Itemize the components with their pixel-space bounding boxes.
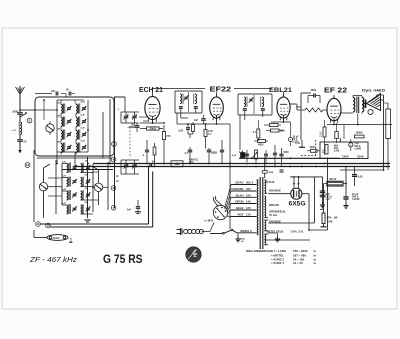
svg-text:220: 220 bbox=[246, 187, 251, 191]
svg-text:0,15: 0,15 bbox=[213, 153, 218, 155]
secondary winding heater bbox=[264, 220, 268, 231]
RF box inner wires bbox=[35, 99, 89, 152]
svg-text:2140: 2140 bbox=[357, 155, 364, 159]
svg-text:EBL21: EBL21 bbox=[269, 87, 292, 94]
svg-text:WEISS C: WEISS C bbox=[240, 229, 252, 233]
label spa block bbox=[327, 217, 338, 224]
secondary labels bbox=[267, 189, 304, 234]
osc switch wafer S3 bbox=[94, 170, 102, 205]
svg-text:m: m bbox=[314, 261, 317, 265]
resistor 4000c bbox=[307, 146, 320, 152]
svg-text:SPA - 1W: SPA - 1W bbox=[327, 217, 338, 220]
wire box1 to gang bbox=[103, 97, 125, 208]
svg-text:GELB: GELB bbox=[236, 206, 244, 210]
svg-text:140: 140 bbox=[246, 200, 251, 204]
svg-text:4 μF: 4 μF bbox=[354, 142, 359, 145]
label ZF 467 bbox=[29, 255, 78, 264]
transformer feed drop bbox=[264, 158, 266, 171]
secondary winding mid bbox=[264, 196, 268, 218]
svg-text:14K: 14K bbox=[328, 221, 333, 224]
svg-text:4000: 4000 bbox=[311, 89, 317, 92]
band switch wafer S1 bbox=[46, 121, 54, 135]
mech link dashes bbox=[301, 140, 316, 156]
RF band coil group 3 bbox=[56, 127, 86, 142]
weiss c tap bbox=[237, 229, 257, 233]
svg-text:0,25: 0,25 bbox=[208, 130, 213, 133]
svg-text:2kΩ: 2kΩ bbox=[189, 162, 194, 164]
label 1 pilot bbox=[69, 238, 73, 244]
svg-text:n. 4845: n. 4845 bbox=[205, 219, 214, 222]
resistor 1500b bbox=[266, 129, 285, 133]
primary winding bbox=[257, 180, 259, 235]
wire out trafo top bbox=[320, 95, 334, 97]
svg-text:1nF: 1nF bbox=[194, 119, 199, 122]
resistor 300 bbox=[324, 178, 347, 186]
electrolytic 4uF bbox=[349, 139, 362, 151]
resistor inside box bbox=[323, 145, 328, 155]
svg-text:n.2042: n.2042 bbox=[352, 198, 360, 201]
voltage selector bbox=[213, 205, 227, 219]
power transformer core bbox=[260, 177, 263, 249]
svg-text:3-: 3- bbox=[118, 109, 120, 111]
cap mid A bbox=[143, 140, 150, 164]
pilot lamp bbox=[34, 230, 68, 240]
oscillator coil group 3 bbox=[62, 188, 93, 200]
choke SPA bbox=[320, 184, 327, 227]
labels electrolytics bbox=[326, 193, 361, 201]
gang link dashed bbox=[129, 127, 131, 158]
transformer ground right bbox=[268, 233, 280, 242]
mains cord bbox=[184, 229, 204, 233]
RF band coil group 4 bbox=[56, 140, 86, 155]
winding bottom wire bbox=[264, 234, 310, 240]
cap 30 top bbox=[66, 89, 75, 98]
svg-text:110: 110 bbox=[246, 213, 251, 217]
capacitor 1nF bbox=[194, 115, 206, 124]
svg-text:0,05: 0,05 bbox=[178, 130, 183, 133]
electrolytic 18uF bbox=[288, 133, 299, 146]
svg-text:1,0a: 1,0a bbox=[269, 172, 274, 174]
svg-text:1000: 1000 bbox=[12, 109, 18, 113]
svg-text:4-20: 4-20 bbox=[81, 140, 86, 143]
right ground bbox=[343, 203, 348, 209]
label N5516 bbox=[266, 180, 275, 184]
EF22 wiring bbox=[177, 92, 231, 229]
siemens logo bbox=[186, 247, 202, 263]
svg-text:n.2?: n.2? bbox=[326, 198, 331, 201]
svg-text:ZF - 467 kHz: ZF - 467 kHz bbox=[29, 255, 78, 264]
resistor 270 bbox=[162, 125, 171, 164]
node 6r bbox=[111, 186, 116, 191]
svg-text:1nF: 1nF bbox=[127, 209, 132, 211]
resistor right 380 bbox=[384, 103, 391, 170]
EF22b wiring bbox=[327, 95, 392, 142]
antenna bbox=[16, 86, 25, 110]
antenna coil bbox=[12, 121, 22, 139]
svg-text:ORANGE: ORANGE bbox=[269, 189, 281, 193]
capacitor 500pF bbox=[131, 123, 139, 132]
transformer ground left bbox=[235, 233, 240, 242]
speaker label bbox=[362, 89, 386, 93]
svg-text:50kΩ: 50kΩ bbox=[150, 128, 156, 131]
secondary winding bottom bbox=[264, 234, 268, 245]
tube 6X5G label bbox=[289, 202, 306, 208]
svg-text:Dyn.-H&D: Dyn.-H&D bbox=[362, 89, 386, 93]
svg-text:EF 22: EF 22 bbox=[324, 85, 347, 94]
svg-text:125: 125 bbox=[246, 206, 251, 210]
svg-text:270: 270 bbox=[166, 135, 171, 138]
svg-text:G 75 RS: G 75 RS bbox=[103, 254, 143, 266]
svg-text:1500: 1500 bbox=[342, 155, 349, 159]
svg-text:4000: 4000 bbox=[310, 146, 316, 149]
svg-text:EF22: EF22 bbox=[210, 86, 232, 93]
capacitor 0,1 bbox=[185, 147, 193, 164]
svg-text:202 V: 202 V bbox=[246, 181, 253, 185]
bus line 3 bbox=[240, 157, 340, 159]
svg-text:GRAU: GRAU bbox=[235, 181, 243, 185]
node 12 bbox=[25, 163, 30, 168]
capacitor 1000 (antenna) bbox=[12, 109, 23, 121]
IF2 wiring bbox=[240, 111, 263, 150]
svg-text:0,1M: 0,1M bbox=[334, 151, 339, 153]
tube EF22b bbox=[327, 96, 341, 124]
svg-text:100: 100 bbox=[51, 90, 56, 93]
bus left risers bbox=[56, 152, 76, 167]
capacitor 0,25b bbox=[207, 148, 217, 164]
resistor 120 bbox=[264, 121, 281, 127]
IF transformer 1 bbox=[175, 91, 202, 113]
mains switch bbox=[210, 229, 237, 234]
svg-text:12: 12 bbox=[26, 163, 30, 167]
capacitor 50 (antenna) bbox=[17, 140, 27, 148]
cap 0,05 right bbox=[352, 166, 363, 186]
cap 100 top bbox=[35, 90, 66, 96]
svg-text:n.5941: n.5941 bbox=[354, 148, 362, 151]
output transformer bbox=[353, 96, 364, 114]
label G 75 RS bbox=[103, 254, 143, 266]
cap mid C bbox=[213, 140, 225, 164]
label 6,8k bbox=[189, 160, 199, 165]
svg-text:4-20: 4-20 bbox=[81, 114, 86, 117]
svg-text:11: 11 bbox=[36, 222, 40, 226]
wire right bus drop bbox=[369, 158, 371, 166]
cap mid E bbox=[279, 148, 289, 167]
fuse bbox=[262, 171, 273, 179]
bus line 1 bbox=[93, 163, 390, 165]
bus line 2 bbox=[75, 166, 390, 168]
RF band coil group 1 bbox=[56, 101, 86, 116]
tuning cap 1 bbox=[118, 97, 140, 129]
cap mid D bbox=[273, 145, 277, 167]
junction dots bus extra bbox=[87, 157, 317, 167]
IF1 wiring bbox=[177, 109, 196, 124]
mains plug bbox=[177, 228, 183, 235]
resistor 4,7k bbox=[253, 120, 260, 141]
svg-text:70 mA: 70 mA bbox=[269, 213, 277, 217]
wire lower bus 2 bbox=[50, 172, 152, 228]
grid resistor zigzag bbox=[297, 108, 327, 112]
svg-text:SCHWARZ: SCHWARZ bbox=[229, 187, 243, 191]
svg-text:1500: 1500 bbox=[280, 130, 286, 133]
speaker magnet bbox=[368, 109, 373, 115]
right wire from speaker bbox=[376, 95, 384, 170]
primary tap fan bbox=[225, 185, 232, 217]
tube ECH21 label bbox=[139, 87, 163, 94]
resistor 50kb bbox=[335, 123, 338, 143]
psu wires right bbox=[268, 157, 328, 231]
svg-text:GRÜN: GRÜN bbox=[235, 199, 243, 204]
RF band coil group 2 bbox=[56, 114, 86, 129]
primary tap labels bbox=[229, 181, 256, 217]
electrolytic pair bbox=[343, 166, 354, 204]
wire lower bus 1 bbox=[40, 166, 149, 224]
svg-text:150: 150 bbox=[246, 193, 251, 197]
node 2 bbox=[27, 118, 32, 123]
node 3b bbox=[111, 205, 116, 210]
oscillator coil group 4 bbox=[62, 202, 93, 214]
oscillator coil group 2 bbox=[62, 174, 93, 186]
resistor 4000b bbox=[254, 140, 268, 147]
svg-text:4-20: 4-20 bbox=[81, 101, 86, 104]
wire y169 left bbox=[62, 167, 113, 170]
selector wiring bbox=[214, 196, 223, 207]
output network box bbox=[320, 138, 368, 159]
svg-text:S.Pu. S.H.: S.Pu. S.H. bbox=[291, 229, 304, 233]
6X5G wiring bbox=[268, 176, 314, 230]
osc left vertical bbox=[55, 160, 57, 214]
svg-text:Punkt: Punkt bbox=[53, 237, 60, 240]
switch to trafo bbox=[237, 229, 246, 243]
svg-text:120: 120 bbox=[271, 121, 276, 124]
ground antenna bbox=[18, 146, 22, 153]
tube EBL21 bbox=[277, 94, 290, 121]
switch contact antenna bbox=[20, 112, 27, 117]
svg-text:0,1M: 0,1M bbox=[295, 143, 300, 145]
tuning cap 2 bbox=[116, 160, 139, 183]
svg-text:ROT: ROT bbox=[238, 213, 244, 217]
cord wiring bbox=[202, 223, 214, 234]
svg-text:13 ÷ 50: 13 ÷ 50 bbox=[293, 261, 303, 265]
osc right link bbox=[103, 162, 108, 210]
svg-text:BRAUN: BRAUN bbox=[269, 203, 279, 207]
wire grid top bbox=[152, 88, 272, 91]
tube EF22b label bbox=[324, 85, 347, 94]
label 10000 bbox=[355, 132, 365, 138]
label Wid inside bbox=[334, 146, 339, 153]
right bus join bbox=[340, 169, 384, 171]
label 1500 2140 bbox=[342, 155, 364, 159]
secondary winding top bbox=[264, 180, 267, 194]
wire EBL to EF22b bbox=[290, 104, 297, 110]
svg-text:1500: 1500 bbox=[320, 131, 323, 137]
osc wiring bbox=[34, 150, 99, 222]
tube ECH21 bbox=[145, 94, 160, 123]
resistor 50k (ECH21) bbox=[140, 127, 163, 131]
svg-text:5000: 5000 bbox=[284, 152, 290, 154]
RF coil box bbox=[35, 97, 114, 158]
capacitor 4000 top bbox=[308, 89, 320, 103]
node 3 bbox=[112, 142, 117, 147]
EBL21 wiring bbox=[275, 92, 301, 140]
svg-text:500 V,: 500 V, bbox=[354, 146, 361, 148]
IF transformer 2 bbox=[238, 94, 272, 115]
res mid B bbox=[153, 143, 156, 167]
oscillator coil group 1 bbox=[62, 160, 93, 172]
svg-text:4000: 4000 bbox=[258, 144, 264, 147]
resistor 0,25 (screen) bbox=[204, 124, 213, 149]
osc switch wafer S2 bbox=[39, 168, 47, 218]
cap 50 bus bbox=[150, 161, 155, 168]
svg-text:4-20: 4-20 bbox=[81, 127, 86, 130]
psu caps bbox=[315, 177, 326, 208]
wire antenna to box bbox=[20, 109, 36, 111]
node 11 bbox=[36, 222, 41, 227]
svg-text:N.5516: N.5516 bbox=[266, 180, 275, 184]
tube EBL21 label bbox=[269, 87, 292, 94]
svg-text:Τ 300 Ω: Τ 300 Ω bbox=[327, 178, 336, 181]
svg-text:6X5G: 6X5G bbox=[289, 202, 306, 208]
equals marks bbox=[280, 170, 284, 172]
table wellenbereiche bbox=[246, 249, 317, 265]
ground 0,1M bbox=[295, 140, 305, 147]
svg-text:0,05: 0,05 bbox=[358, 176, 363, 179]
node 10 bbox=[46, 223, 51, 228]
tube EF22 bbox=[210, 94, 224, 121]
node 4r bbox=[111, 157, 116, 162]
label n4845 bbox=[205, 219, 214, 222]
cap 1nF gang bbox=[127, 200, 141, 214]
svg-text:BLAU: BLAU bbox=[236, 193, 244, 197]
svg-text:n.17: n.17 bbox=[12, 130, 17, 132]
cap 0,05mid bbox=[232, 150, 245, 158]
resistor 4,83 bbox=[166, 161, 188, 167]
tube 6X5G bbox=[291, 183, 302, 199]
svg-text:10000: 10000 bbox=[356, 132, 364, 135]
tube EF22 label bbox=[210, 86, 232, 93]
svg-text:ECH 21: ECH 21 bbox=[139, 87, 163, 94]
cathode RC EF22 bbox=[178, 122, 194, 138]
speaker bbox=[363, 94, 380, 111]
svg-text:1: 1 bbox=[70, 238, 73, 244]
wire top EBL speaker bbox=[293, 89, 311, 94]
osc ground bbox=[85, 220, 91, 224]
volume pot bbox=[239, 150, 268, 164]
svg-text:= KURZ 1: = KURZ 1 bbox=[271, 261, 284, 265]
ECH21 wiring bbox=[139, 89, 165, 124]
resistor 1500 vert bbox=[320, 120, 327, 155]
